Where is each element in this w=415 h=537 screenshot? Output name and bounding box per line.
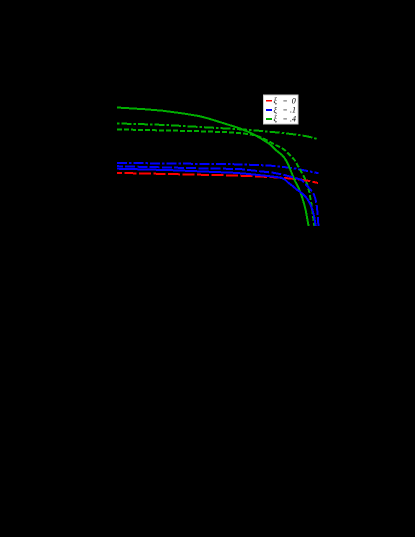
green dash-dot flat curve (117, 124, 318, 140)
svg-text:.4: .4 (290, 115, 296, 124)
red dashed flat curve (117, 173, 318, 183)
svg-text:ξ: ξ (274, 115, 278, 124)
blue dash-dot flat curve (117, 163, 319, 173)
legend green sample (266, 118, 272, 120)
legend blue sample (266, 109, 272, 111)
green solid curve (xi=.4 upper, plunges left-most) (117, 108, 309, 227)
blue dashed curve (plunges right-most) (117, 166, 318, 226)
legend box (264, 95, 299, 124)
svg-text:=: = (283, 96, 287, 105)
svg-text:.1: .1 (290, 106, 296, 115)
svg-text:ξ: ξ (274, 106, 278, 115)
svg-text:ξ: ξ (274, 97, 278, 106)
svg-text:0: 0 (292, 96, 296, 105)
blue solid curve (117, 169, 316, 226)
legend red sample (266, 100, 272, 102)
green dashed curve (plunges right of solid green) (117, 129, 314, 226)
svg-text:=: = (283, 106, 287, 115)
svg-text:=: = (283, 115, 287, 124)
